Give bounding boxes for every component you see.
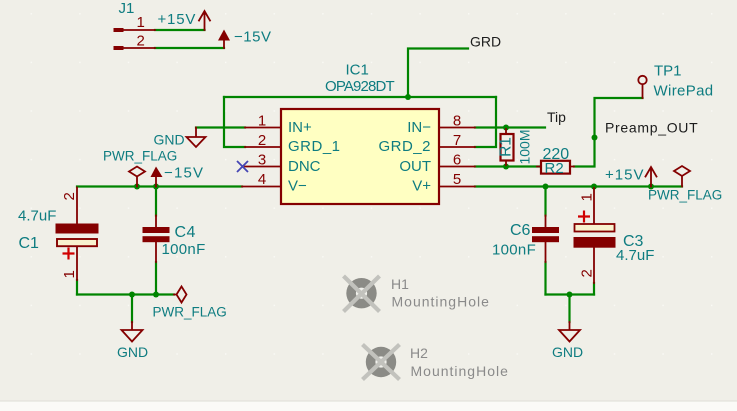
svg-text:IN−: IN−: [407, 119, 431, 136]
svg-text:IN+: IN+: [288, 119, 312, 136]
svg-text:PWR_FLAG: PWR_FLAG: [648, 188, 722, 203]
svg-text:C6: C6: [510, 222, 531, 239]
svg-text:Preamp_OUT: Preamp_OUT: [605, 120, 698, 136]
svg-text:H1: H1: [391, 276, 409, 292]
svg-text:PWR_FLAG: PWR_FLAG: [103, 149, 177, 164]
svg-text:8: 8: [453, 113, 461, 130]
svg-text:2: 2: [579, 269, 596, 277]
svg-text:H2: H2: [410, 345, 428, 361]
svg-text:2: 2: [258, 132, 266, 149]
svg-text:1: 1: [258, 113, 266, 130]
svg-text:MountingHole: MountingHole: [392, 294, 490, 310]
svg-text:GRD_1: GRD_1: [288, 138, 341, 155]
svg-text:−15V: −15V: [164, 165, 204, 182]
svg-text:100M: 100M: [516, 129, 532, 164]
svg-text:R2: R2: [545, 160, 564, 177]
svg-text:GND: GND: [552, 344, 583, 360]
svg-text:IC1: IC1: [346, 62, 369, 79]
svg-text:DNC: DNC: [288, 158, 321, 175]
svg-text:2: 2: [61, 192, 78, 200]
svg-text:+15V: +15V: [158, 11, 197, 28]
svg-text:R1: R1: [498, 137, 515, 157]
svg-text:3: 3: [258, 152, 266, 169]
svg-text:J1: J1: [119, 0, 135, 17]
svg-text:TP1: TP1: [654, 63, 682, 80]
svg-text:7: 7: [453, 132, 461, 149]
svg-text:Tip: Tip: [547, 109, 566, 125]
svg-text:−15V: −15V: [234, 29, 271, 46]
svg-text:WirePad: WirePad: [654, 83, 714, 100]
svg-text:6: 6: [453, 152, 461, 169]
svg-text:OUT: OUT: [399, 158, 431, 175]
svg-text:2: 2: [137, 33, 145, 50]
svg-text:C4: C4: [175, 224, 196, 241]
svg-text:GND: GND: [117, 344, 148, 360]
svg-text:V−: V−: [288, 178, 307, 195]
svg-text:100nF: 100nF: [492, 242, 536, 259]
svg-text:4.7uF: 4.7uF: [18, 208, 56, 225]
svg-text:4.7uF: 4.7uF: [616, 247, 654, 264]
svg-text:1: 1: [61, 270, 78, 278]
svg-text:1: 1: [137, 14, 145, 31]
svg-text:5: 5: [453, 171, 461, 188]
svg-text:V+: V+: [412, 178, 431, 195]
svg-text:C1: C1: [19, 235, 40, 252]
svg-text:GND: GND: [154, 132, 185, 148]
svg-text:GRD: GRD: [470, 34, 501, 50]
svg-text:MountingHole: MountingHole: [411, 363, 509, 379]
svg-text:OPA928DT: OPA928DT: [325, 78, 394, 95]
svg-text:100nF: 100nF: [162, 241, 206, 258]
svg-text:GRD_2: GRD_2: [378, 138, 431, 155]
svg-text:4: 4: [258, 171, 266, 188]
svg-text:+15V: +15V: [605, 167, 644, 184]
svg-text:PWR_FLAG: PWR_FLAG: [153, 305, 227, 320]
svg-text:1: 1: [579, 193, 596, 201]
